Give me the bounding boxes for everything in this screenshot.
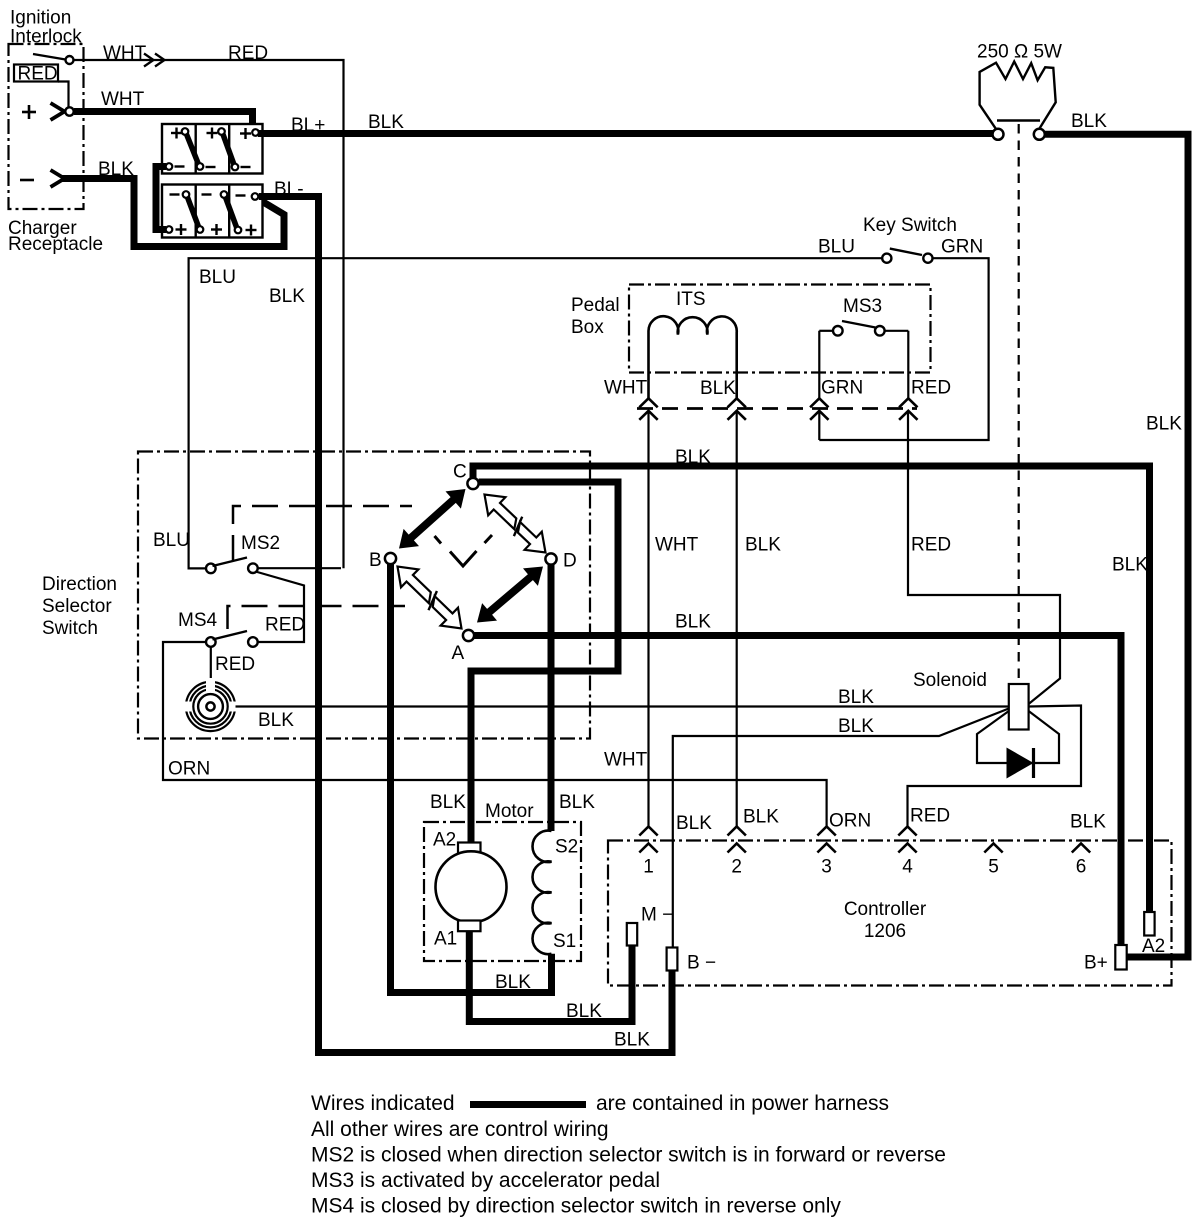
svg-text:Ignition: Ignition: [10, 8, 71, 29]
svg-text:BLK: BLK: [745, 535, 781, 556]
MS4 linkage dashed: [228, 606, 406, 629]
key switch contact left: [882, 254, 891, 263]
svg-text:1206: 1206: [864, 921, 906, 942]
wire MS3 left leg (GRN): [818, 331, 820, 399]
battery row1 box: [162, 124, 263, 174]
svg-text:A1: A1: [434, 929, 457, 950]
svg-text:B −: B −: [687, 953, 716, 974]
wire RED MS3 to solenoid coil (thin): [908, 411, 1060, 704]
charger + contact circle: [65, 107, 73, 115]
svg-text:BLK: BLK: [1146, 414, 1182, 435]
svg-text:A2: A2: [1142, 936, 1165, 957]
svg-text:BLK: BLK: [676, 813, 712, 834]
wire node C up/right to controller A2 (thick): [473, 466, 1150, 912]
svg-text:BLK: BLK: [368, 112, 404, 133]
wire node B down to motor S1 (thick): [391, 564, 552, 992]
svg-text:250 Ω 5W: 250 Ω 5W: [977, 42, 1062, 63]
switch MS2: [206, 564, 216, 574]
pedal box connector arrows WHT: [639, 398, 657, 407]
pedal box connector arrows RED: [899, 398, 917, 407]
svg-text:ORN: ORN: [168, 759, 210, 780]
svg-text:Key Switch: Key Switch: [863, 215, 957, 236]
svg-text:Switch: Switch: [42, 618, 98, 639]
svg-text:BLK: BLK: [258, 710, 294, 731]
svg-text:Selector: Selector: [42, 596, 112, 617]
inductor ITS: [648, 316, 736, 398]
wire solenoid out to controller pin4 (thin): [908, 706, 1082, 827]
svg-text:MS2 is closed when direction s: MS2 is closed when direction selector sw…: [311, 1144, 946, 1167]
svg-text:WHT: WHT: [101, 89, 145, 110]
rotary switch arrow B-C (solid): [399, 489, 466, 549]
svg-text:Motor: Motor: [485, 801, 534, 822]
svg-text:WHT: WHT: [655, 535, 699, 556]
svg-text:MS4 is closed by direction sel: MS4 is closed by direction selector swit…: [311, 1195, 841, 1218]
svg-text:A: A: [452, 643, 465, 664]
wire BLK buzzer to solenoid coil (thin): [236, 705, 1009, 707]
svg-text:Solenoid: Solenoid: [913, 670, 987, 691]
wire RED tag to + terminal: [58, 82, 69, 109]
wire BL- to controller B- (thick): [259, 197, 672, 1053]
svg-text:BLK: BLK: [566, 1001, 602, 1022]
svg-text:MS3: MS3: [843, 296, 882, 317]
diode: [1007, 748, 1034, 779]
pedal box harness dashed line: [637, 407, 917, 410]
controller pin 4: [898, 827, 916, 836]
svg-text:C: C: [453, 462, 467, 483]
ignition interlock dash-dot enclosure: [9, 44, 84, 209]
wire B- branch to solenoid (thin): [673, 709, 1009, 948]
wire WHT/RED interlock to MS2 (thin): [74, 60, 344, 568]
wire BLK to controller pin2 (thin): [736, 411, 738, 827]
pedal box connector arrows GRN: [810, 398, 828, 407]
svg-text:BLK: BLK: [700, 378, 736, 399]
rotary switch arrow C-D (hollow): [485, 495, 517, 530]
svg-text:S2: S2: [555, 837, 578, 858]
controller pin 3: [817, 827, 835, 836]
svg-text:BLK: BLK: [1112, 555, 1148, 576]
wire WHT charger+ to battery (thick): [74, 112, 253, 130]
wire solenoid contact to B+ down right edge (thick): [1045, 134, 1189, 957]
wire WHT to controller pin1 (thin): [647, 411, 649, 827]
battery inter-row link (thick): [156, 167, 166, 230]
rotary switch arrow A-D (solid): [477, 567, 543, 623]
battery terminal posts: [182, 128, 189, 135]
svg-text:WHT: WHT: [103, 43, 147, 64]
node D: [545, 553, 556, 564]
svg-text:MS2: MS2: [241, 533, 280, 554]
svg-text:BLK: BLK: [269, 286, 305, 307]
svg-text:3: 3: [821, 857, 832, 878]
svg-text:Controller: Controller: [844, 899, 927, 920]
inline connector arrows on WHT wire: [144, 54, 154, 67]
reverse buzzer (spiral): [206, 702, 214, 710]
svg-text:WHT: WHT: [604, 750, 648, 771]
pedal box connector arrows BLK: [728, 398, 746, 407]
wire node D down to motor S2 (thick): [548, 565, 555, 831]
pedal box dash-dot enclosure: [629, 285, 931, 373]
svg-text:MS3 is activated by accelerato: MS3 is activated by accelerator pedal: [311, 1169, 660, 1192]
svg-text:BLK: BLK: [559, 792, 595, 813]
motor terminal A1: [458, 921, 481, 932]
svg-text:D: D: [563, 551, 577, 572]
svg-text:Pedal: Pedal: [571, 295, 620, 316]
charger + pin chevron: [51, 103, 65, 120]
motor terminal A2: [458, 843, 481, 854]
svg-text:Receptacle: Receptacle: [8, 234, 103, 255]
svg-text:5: 5: [988, 857, 999, 878]
switch MS4: [206, 637, 216, 647]
svg-text:RED: RED: [910, 806, 950, 827]
wire motor A1 to controller M- (thick): [469, 931, 632, 1021]
controller pin 1: [639, 827, 657, 836]
svg-text:1: 1: [643, 857, 654, 878]
svg-text:Wires indicated: Wires indicated: [311, 1092, 455, 1115]
svg-text:BLK: BLK: [838, 716, 874, 737]
svg-text:RED: RED: [228, 43, 268, 64]
svg-text:ORN: ORN: [829, 811, 871, 832]
solenoid coil body: [1009, 684, 1029, 730]
direction selector dash-dot enclosure: [138, 452, 590, 739]
battery row2 jumper bars: [187, 196, 199, 228]
svg-text:B+: B+: [1084, 953, 1108, 974]
controller terminal B+: [1115, 945, 1126, 970]
wire BLK charger- to battery BL- (thick): [62, 179, 284, 247]
svg-text:BLU: BLU: [153, 530, 190, 551]
svg-text:BLU: BLU: [818, 237, 855, 258]
node B: [385, 553, 396, 564]
svg-text:BLK: BLK: [675, 612, 711, 633]
svg-text:4: 4: [902, 857, 913, 878]
svg-text:BLK: BLK: [1070, 812, 1106, 833]
svg-text:BLK: BLK: [838, 687, 874, 708]
svg-text:RED: RED: [911, 378, 951, 399]
charger - pin chevron: [51, 170, 65, 187]
svg-text:6: 6: [1076, 857, 1087, 878]
svg-text:S1: S1: [553, 931, 576, 952]
controller terminal M-: [627, 923, 637, 946]
charger + sign: [22, 111, 36, 114]
resistor 250 ohm 5W outline: [980, 62, 1056, 130]
battery row2 box: [162, 185, 263, 238]
switch MS3: [819, 330, 833, 332]
rotary switch wiper dashes: [435, 536, 442, 544]
solenoid contact post right: [1034, 129, 1045, 140]
wire BLU MS2 to key switch (thin): [189, 258, 883, 568]
key switch contact right: [923, 254, 932, 263]
battery row2 polarity signs: [170, 193, 180, 195]
svg-text:A2: A2: [433, 830, 456, 851]
svg-text:are contained in power harness: are contained in power harness: [596, 1092, 889, 1115]
svg-text:2: 2: [731, 857, 742, 878]
svg-text:ITS: ITS: [676, 289, 706, 310]
svg-text:BLK: BLK: [430, 792, 466, 813]
key switch blade: [890, 249, 922, 255]
interlock switch contact: [66, 56, 74, 64]
controller pin 6: [1072, 844, 1090, 853]
wire ORN MS4 to controller pin3 (thin): [163, 642, 827, 827]
wire BL+ to solenoid contact (thick): [258, 130, 994, 137]
svg-text:RED: RED: [215, 654, 255, 675]
svg-text:GRN: GRN: [821, 378, 863, 399]
controller pin 2: [728, 827, 746, 836]
svg-text:GRN: GRN: [941, 237, 983, 258]
svg-text:BLK: BLK: [1071, 111, 1107, 132]
svg-text:BLU: BLU: [199, 267, 236, 288]
svg-text:BLK: BLK: [614, 1030, 650, 1051]
battery row1 polarity signs: [171, 132, 182, 134]
svg-text:Box: Box: [571, 317, 604, 338]
wire node C loop to motor A2 (thick): [471, 482, 618, 843]
svg-text:B: B: [369, 550, 382, 571]
svg-text:BLK: BLK: [675, 447, 711, 468]
charger - sign: [20, 179, 34, 182]
wire GRN key switch to MS3 (thin): [819, 258, 988, 440]
RED tag box: [14, 65, 58, 82]
wire MS2 to MS4 (RED jog): [256, 572, 305, 643]
svg-text:Direction: Direction: [42, 574, 117, 595]
node C: [467, 478, 478, 489]
MS2 linkage dashed: [233, 506, 412, 561]
motor field coil S2-S1: [533, 831, 552, 955]
svg-text:BLK: BLK: [743, 807, 779, 828]
solenoid contact bar: [997, 119, 1040, 121]
controller dash-dot enclosure: [608, 841, 1172, 986]
solenoid plunger dashed link: [1018, 124, 1020, 682]
svg-text:RED: RED: [265, 615, 305, 636]
solenoid contact post left: [993, 129, 1004, 140]
diode snubber loop: [977, 711, 1059, 763]
wire MS3 right leg (RED): [907, 331, 909, 399]
svg-text:BLK: BLK: [495, 972, 531, 993]
wire RED MS4 to buzzer (thin): [210, 647, 212, 680]
svg-text:RED: RED: [911, 535, 951, 556]
interlock switch blade: [33, 54, 66, 60]
rotary switch arrow B-A (hollow): [398, 567, 431, 604]
svg-text:RED: RED: [18, 64, 58, 85]
controller pin 5: [984, 844, 1002, 853]
svg-text:All other wires are control wi: All other wires are control wiring: [311, 1118, 609, 1141]
motor dash-dot enclosure: [424, 822, 581, 961]
svg-text:Interlock: Interlock: [10, 27, 82, 48]
svg-text:WHT: WHT: [604, 378, 648, 399]
controller terminal B-: [667, 948, 678, 971]
motor armature: [436, 851, 507, 922]
battery row1 jumper bars: [186, 133, 199, 166]
svg-text:M −: M −: [641, 905, 673, 926]
node A: [463, 630, 474, 641]
svg-text:MS4: MS4: [178, 610, 218, 631]
controller terminal A2: [1144, 912, 1154, 936]
wire node A to controller B+ (thick): [474, 636, 1121, 946]
